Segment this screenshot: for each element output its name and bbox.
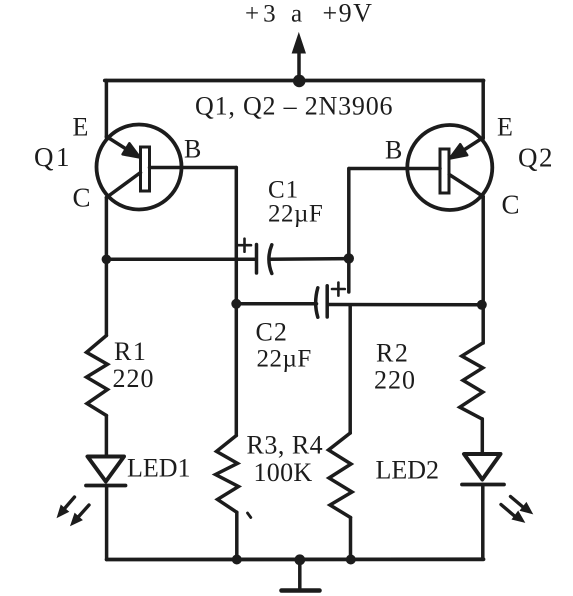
resistor R1 [87, 336, 108, 416]
junction dot R3 bottom [232, 555, 242, 565]
resistor R2 [460, 343, 483, 419]
LED LED2 [462, 454, 504, 485]
wire Q2 collector down to R2 [481, 197, 485, 344]
LED2 light arrow 2 [501, 505, 524, 522]
svg-text:a: a [291, 1, 302, 28]
svg-text:Q1, Q2 – 2N3906: Q1, Q2 – 2N3906 [195, 92, 393, 121]
wire R2 to LED2 [481, 419, 485, 454]
svg-text:Q2: Q2 [518, 143, 554, 173]
svg-text:100K: 100K [254, 458, 313, 487]
LED2 light arrow 1 [511, 497, 532, 514]
wire right upper (V+ to Q2 emitter) [481, 81, 485, 139]
svg-text:R2: R2 [376, 339, 409, 368]
wire Q1 base down to C2 node [235, 168, 239, 304]
svg-text:+9V: +9V [323, 0, 374, 28]
ground [282, 560, 320, 591]
svg-text:+3: +3 [245, 1, 280, 28]
wire R1 to LED1 [105, 416, 109, 457]
wire R3 to bottom rail [235, 512, 239, 559]
capacitor C2 [236, 283, 481, 318]
wire Q1 collector down to R1 [105, 198, 109, 336]
junction dot C2 right (Q2 collector) [477, 300, 487, 310]
transistor Q2 [349, 125, 492, 210]
svg-text:C: C [502, 190, 520, 220]
svg-text:C2: C2 [256, 318, 288, 347]
wire R4 to bottom rail [349, 518, 353, 560]
svg-text:R1: R1 [114, 337, 147, 366]
junction dot R4 bottom [346, 555, 356, 565]
resistor R3 [216, 436, 239, 513]
wire C2 right segment down to R4 [348, 305, 352, 433]
stray mark [248, 513, 251, 518]
wire top rail [105, 79, 484, 83]
junction dot C2 left (Q1 base / R3) [231, 299, 241, 309]
wire LED2 to bottom rail [481, 485, 485, 560]
junction dot ground tap [294, 554, 305, 565]
resistor R4 [329, 433, 353, 518]
wire left upper (V+ to Q1 emitter) [105, 81, 109, 138]
wire C2 node down to R3 [235, 304, 239, 436]
LED LED1 [86, 457, 126, 486]
svg-text:R3, R4: R3, R4 [247, 431, 324, 460]
wire Q2 base down to C1 node [347, 169, 351, 293]
LED1 light arrow 2 [72, 505, 90, 525]
svg-text:LED1: LED1 [127, 454, 191, 483]
power supply arrow [292, 34, 305, 82]
capacitor C1 [106, 239, 348, 274]
svg-text:LED2: LED2 [376, 456, 440, 485]
wire bottom rail [107, 557, 484, 561]
transistor Q1 [97, 125, 237, 210]
junction dot C1 right (Q2 base) [344, 253, 354, 263]
svg-text:E: E [73, 113, 89, 142]
LED1 light arrow 1 [58, 497, 75, 517]
junction dot at supply tap [293, 75, 306, 88]
wire LED1 to bottom rail [105, 486, 109, 560]
svg-text:22µF: 22µF [268, 201, 323, 228]
svg-text:C: C [73, 183, 91, 213]
svg-text:220: 220 [374, 366, 416, 395]
junction dot C1 left [102, 254, 112, 264]
svg-text:E: E [497, 113, 513, 142]
svg-text:B: B [385, 136, 402, 165]
svg-text:220: 220 [113, 364, 155, 393]
svg-text:B: B [184, 135, 201, 164]
svg-text:C1: C1 [268, 177, 299, 204]
svg-text:22µF: 22µF [257, 346, 312, 373]
svg-text:Q1: Q1 [34, 142, 72, 172]
